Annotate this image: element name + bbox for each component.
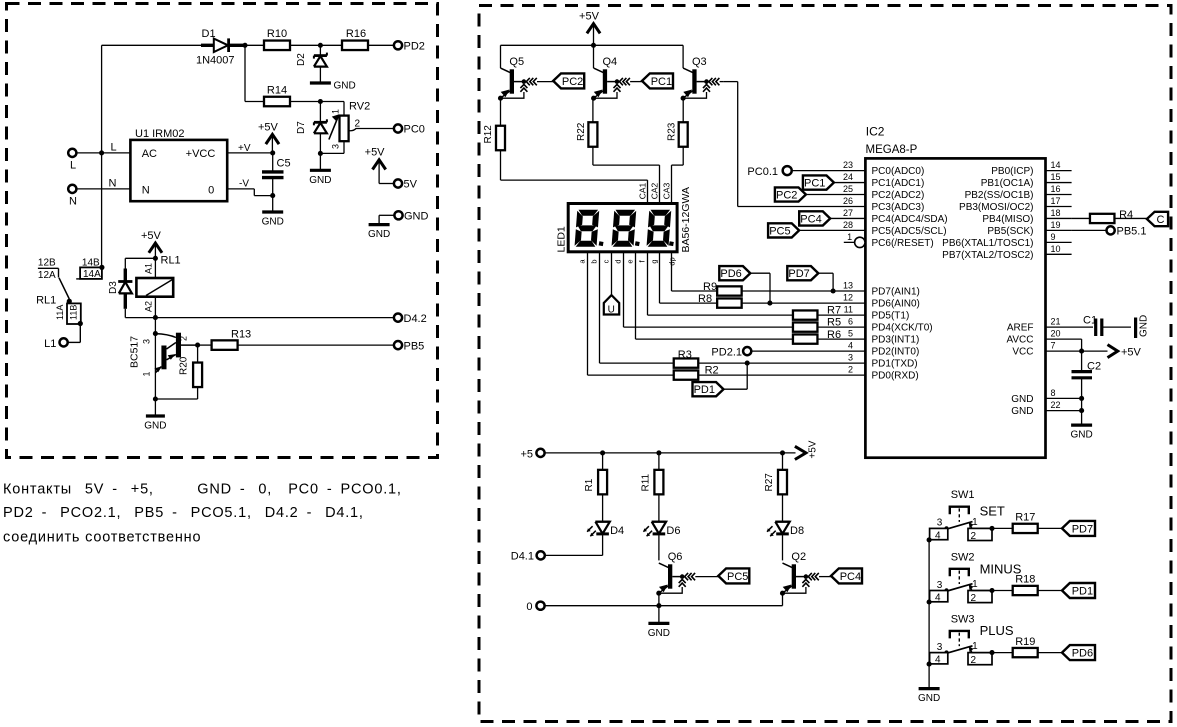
svg-text:PLUS: PLUS	[980, 623, 1014, 638]
svg-text:PC1: PC1	[804, 177, 825, 189]
svg-text:R16: R16	[346, 28, 366, 40]
svg-text:R14: R14	[267, 85, 287, 97]
svg-text:11B: 11B	[69, 305, 79, 320]
svg-text:+5V: +5V	[808, 440, 819, 458]
svg-text:19: 19	[1051, 220, 1061, 230]
svg-text:-V: -V	[239, 178, 249, 189]
svg-text:+V: +V	[238, 143, 251, 154]
svg-text:1: 1	[972, 517, 978, 528]
svg-text:21: 21	[1051, 317, 1061, 327]
svg-text:D2: D2	[296, 53, 307, 66]
svg-text:0: 0	[208, 185, 214, 197]
svg-text:2: 2	[848, 365, 853, 375]
svg-text:+5: +5	[520, 449, 533, 461]
svg-text:1: 1	[142, 371, 152, 376]
svg-text:L: L	[111, 141, 117, 153]
svg-text:11: 11	[844, 305, 853, 315]
svg-text:PB5.1: PB5.1	[1117, 226, 1147, 238]
svg-text:PC0: PC0	[404, 124, 425, 136]
svg-text:PC4: PC4	[840, 571, 861, 583]
svg-text:PC4: PC4	[800, 213, 821, 225]
svg-text:GND: GND	[648, 628, 670, 639]
svg-text:BC517: BC517	[129, 336, 141, 368]
svg-text:4: 4	[935, 593, 941, 604]
svg-text:R3: R3	[678, 349, 692, 361]
svg-text:PC1(ADC1): PC1(ADC1)	[872, 178, 925, 189]
svg-text:R23: R23	[667, 122, 678, 141]
svg-text:PD5(T1): PD5(T1)	[872, 311, 910, 322]
svg-text:U: U	[608, 305, 615, 316]
svg-text:Q2: Q2	[791, 551, 806, 563]
svg-text:PD2: PD2	[404, 41, 425, 53]
svg-text:3: 3	[937, 518, 943, 529]
svg-text:AVCC: AVCC	[1006, 335, 1033, 346]
svg-text:GND: GND	[1070, 430, 1092, 441]
svg-text:22: 22	[1051, 400, 1061, 410]
svg-text:GND: GND	[1011, 406, 1033, 417]
svg-text:5V: 5V	[404, 179, 418, 191]
svg-text:14A: 14A	[83, 269, 101, 280]
svg-text:c: c	[602, 259, 611, 263]
svg-text:N: N	[69, 196, 77, 208]
svg-text:3: 3	[848, 353, 853, 363]
svg-text:1: 1	[847, 232, 852, 242]
svg-text:15: 15	[1051, 172, 1061, 182]
svg-text:3: 3	[142, 339, 152, 344]
svg-text:GND: GND	[144, 421, 166, 432]
svg-text:PD7: PD7	[1072, 523, 1093, 535]
svg-text:R11: R11	[641, 473, 652, 491]
svg-text:3: 3	[331, 144, 341, 149]
svg-text:28: 28	[843, 220, 853, 230]
svg-text:IC2: IC2	[866, 125, 885, 139]
svg-text:2: 2	[971, 593, 977, 604]
svg-text:g: g	[650, 259, 659, 263]
svg-text:9: 9	[1051, 232, 1056, 242]
svg-text:VCC: VCC	[1012, 347, 1033, 358]
svg-text:MINUS: MINUS	[980, 561, 1022, 576]
svg-text:1: 1	[972, 641, 978, 652]
svg-text:PD0(RXD): PD0(RXD)	[872, 371, 919, 382]
svg-text:+VCC: +VCC	[186, 148, 216, 160]
svg-text:R22: R22	[576, 122, 587, 141]
svg-text:PB1(OC1A): PB1(OC1A)	[981, 178, 1034, 189]
svg-text:R12: R12	[483, 125, 494, 144]
svg-text:PC5: PC5	[769, 225, 790, 237]
svg-text:D4.1: D4.1	[511, 551, 534, 563]
svg-text:C5: C5	[277, 158, 291, 170]
svg-text:D3: D3	[108, 281, 119, 294]
svg-text:d: d	[614, 259, 623, 263]
svg-text:PB3(MOSI/OC2): PB3(MOSI/OC2)	[959, 202, 1033, 213]
svg-text:5: 5	[848, 329, 853, 339]
svg-text:20: 20	[1051, 329, 1061, 339]
svg-text:SW3: SW3	[951, 613, 975, 625]
svg-text:PB0(ICP): PB0(ICP)	[991, 166, 1033, 177]
svg-text:SW1: SW1	[951, 489, 975, 501]
svg-text:18: 18	[1051, 208, 1061, 218]
svg-text:D1: D1	[202, 28, 216, 40]
svg-text:PD4(XCK/T0): PD4(XCK/T0)	[872, 323, 933, 334]
svg-text:L1: L1	[44, 338, 56, 350]
svg-text:D4.2: D4.2	[404, 313, 427, 325]
svg-text:PD2 - PCO2.1, PB5 - PCO5.1,: PD2 - PCO2.1, PB5 - PCO5.1, D4.2 - D4.1,	[3, 505, 364, 521]
svg-text:3: 3	[937, 642, 943, 653]
svg-text:D7: D7	[296, 121, 307, 134]
svg-text:CA1: CA1	[638, 182, 648, 199]
svg-text:Q3: Q3	[692, 56, 707, 68]
svg-text:PC3(ADC3): PC3(ADC3)	[872, 202, 925, 213]
svg-text:CA3: CA3	[662, 182, 672, 199]
svg-text:RV2: RV2	[349, 101, 370, 113]
svg-text:PC0.1: PC0.1	[747, 166, 778, 178]
svg-text:2: 2	[179, 336, 189, 341]
svg-text:GND: GND	[368, 229, 390, 240]
svg-text:GND: GND	[1139, 315, 1150, 337]
svg-text:AREF: AREF	[1007, 323, 1034, 334]
svg-text:PD1: PD1	[1072, 585, 1093, 597]
svg-text:R10: R10	[267, 28, 287, 40]
svg-text:D8: D8	[790, 525, 804, 537]
svg-text:R9: R9	[703, 281, 717, 293]
svg-text:R4: R4	[1119, 209, 1133, 221]
svg-text:23: 23	[843, 160, 853, 170]
svg-text:11A: 11A	[55, 305, 65, 320]
svg-text:N: N	[142, 185, 150, 197]
svg-text:CA2: CA2	[650, 182, 660, 199]
svg-text:соединить соответственно: соединить соответственно	[3, 530, 201, 546]
svg-text:4: 4	[935, 530, 941, 541]
svg-text:GND: GND	[262, 217, 284, 228]
svg-text:2: 2	[971, 655, 977, 666]
svg-text:3: 3	[937, 580, 943, 591]
svg-text:PB6(XTAL1/TOSC1): PB6(XTAL1/TOSC1)	[942, 238, 1033, 249]
svg-text:U1 IRM02: U1 IRM02	[135, 128, 185, 140]
svg-text:PB5(SCK): PB5(SCK)	[987, 226, 1033, 237]
svg-text:R27: R27	[764, 473, 775, 492]
svg-text:R1: R1	[584, 478, 595, 491]
svg-text:PC2: PC2	[562, 76, 583, 88]
svg-text:6: 6	[848, 317, 853, 327]
svg-text:BA56-12GWA: BA56-12GWA	[680, 187, 692, 253]
svg-text:PD3(INT1): PD3(INT1)	[872, 335, 920, 346]
svg-text:12A: 12A	[38, 270, 56, 281]
svg-text:12: 12	[843, 293, 853, 303]
svg-text:PD6(AIN0): PD6(AIN0)	[872, 299, 920, 310]
svg-text:Q4: Q4	[603, 56, 618, 68]
svg-text:+5V: +5V	[579, 11, 600, 23]
svg-text:7: 7	[1051, 341, 1056, 351]
svg-text:PD7(AIN1): PD7(AIN1)	[872, 287, 920, 298]
svg-text:PC0(ADC0): PC0(ADC0)	[872, 166, 925, 177]
svg-text:0: 0	[526, 601, 532, 613]
svg-text:PD1(TXD): PD1(TXD)	[872, 359, 918, 370]
svg-text:+5V: +5V	[365, 147, 386, 159]
svg-text:GND: GND	[918, 693, 940, 704]
svg-text:4: 4	[848, 341, 853, 351]
svg-text:L: L	[70, 160, 76, 172]
svg-text:Контакты 5V - +5, GND -: Контакты 5V - +5, GND - 0, PC0 - PCO0.1,	[3, 482, 402, 498]
svg-text:+5V: +5V	[141, 230, 162, 242]
svg-text:Q5: Q5	[509, 56, 524, 68]
svg-text:C: C	[1157, 214, 1165, 226]
svg-text:PB5: PB5	[404, 340, 425, 352]
svg-text:SW2: SW2	[951, 551, 975, 563]
svg-text:SET: SET	[980, 504, 1005, 519]
svg-text:A1: A1	[144, 263, 154, 274]
svg-text:R19: R19	[1015, 636, 1035, 648]
svg-text:17: 17	[1051, 196, 1061, 206]
svg-text:16: 16	[1051, 184, 1061, 194]
svg-text:GND: GND	[309, 175, 331, 186]
svg-text:PC1: PC1	[651, 76, 672, 88]
svg-text:A2: A2	[144, 301, 154, 312]
svg-text:1: 1	[331, 109, 341, 114]
svg-text:PC5: PC5	[727, 571, 748, 583]
svg-text:R8: R8	[698, 293, 712, 305]
svg-text:PB7(XTAL2/TOSC2): PB7(XTAL2/TOSC2)	[942, 250, 1033, 261]
svg-text:+5V: +5V	[1121, 346, 1142, 358]
svg-text:PB2(SS/OC1B): PB2(SS/OC1B)	[965, 190, 1034, 201]
svg-text:b: b	[590, 259, 599, 263]
svg-text:PB4(MISO): PB4(MISO)	[982, 214, 1033, 225]
svg-text:2: 2	[971, 531, 977, 542]
svg-text:1: 1	[972, 579, 978, 590]
svg-text:R13: R13	[231, 328, 251, 340]
svg-text:26: 26	[843, 196, 853, 206]
svg-text:13: 13	[843, 281, 853, 291]
svg-text:12B: 12B	[38, 258, 56, 269]
svg-text:e: e	[626, 259, 635, 263]
svg-text:27: 27	[843, 208, 853, 218]
svg-text:24: 24	[843, 172, 853, 182]
svg-text:GND: GND	[334, 80, 356, 91]
svg-text:1N4007: 1N4007	[196, 55, 235, 67]
svg-text:RL1: RL1	[161, 255, 181, 267]
svg-text:R17: R17	[1015, 512, 1035, 524]
svg-text:PC2(ADC2): PC2(ADC2)	[872, 190, 925, 201]
svg-text:PC5(ADC5/SCL): PC5(ADC5/SCL)	[872, 226, 947, 237]
svg-text:10: 10	[1051, 244, 1061, 254]
svg-text:PD6: PD6	[1072, 648, 1093, 660]
svg-text:D6: D6	[666, 525, 680, 537]
svg-text:D4: D4	[610, 525, 624, 537]
svg-text:Q6: Q6	[668, 551, 683, 563]
svg-text:PD7: PD7	[788, 268, 809, 280]
svg-text:PD2(INT0): PD2(INT0)	[872, 347, 920, 358]
svg-text:PD1: PD1	[694, 384, 715, 396]
svg-text:4: 4	[935, 655, 941, 666]
svg-text:8: 8	[1051, 388, 1056, 398]
svg-text:MEGA8-P: MEGA8-P	[866, 144, 918, 156]
svg-text:GND: GND	[1011, 394, 1033, 405]
svg-text:PC2: PC2	[776, 189, 797, 201]
svg-text:RL1: RL1	[36, 294, 56, 306]
svg-text:PD6: PD6	[720, 268, 741, 280]
svg-text:N: N	[109, 177, 117, 189]
svg-text:R20: R20	[179, 356, 190, 375]
svg-text:+5V: +5V	[258, 121, 279, 133]
svg-text:25: 25	[843, 184, 853, 194]
svg-text:PC6(/RESET): PC6(/RESET)	[872, 238, 934, 249]
svg-text:AC: AC	[142, 148, 157, 160]
svg-text:LED1: LED1	[556, 226, 568, 252]
svg-text:PC4(ADC4/SDA): PC4(ADC4/SDA)	[872, 214, 948, 225]
svg-text:PD2.1: PD2.1	[711, 346, 742, 358]
svg-text:14: 14	[1051, 160, 1061, 170]
svg-text:GND: GND	[404, 211, 429, 223]
